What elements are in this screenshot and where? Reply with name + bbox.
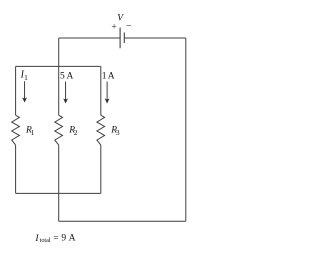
resistor R2 <box>55 115 63 145</box>
wire bottom (outer return) <box>59 220 186 222</box>
resistor R3 <box>97 115 105 145</box>
svg-text:−: − <box>126 21 132 32</box>
current arrow 1A branch <box>105 82 109 104</box>
battery V short plate <box>123 33 125 43</box>
wire top left (battery + side) <box>59 37 120 39</box>
wire inner top rail <box>16 65 101 67</box>
svg-text:Itotal=9A: Itotal=9A <box>34 234 75 244</box>
svg-text:1A: 1A <box>102 71 115 81</box>
svg-text:V: V <box>117 13 124 23</box>
wire middle branch lower <box>58 145 60 221</box>
wire top right (battery - side) <box>124 37 186 39</box>
svg-text:R1: R1 <box>25 126 35 138</box>
wire third branch lower <box>100 145 102 194</box>
wire middle branch upper <box>58 38 60 115</box>
svg-text:I1: I1 <box>20 69 29 82</box>
svg-text:R3: R3 <box>110 126 120 138</box>
wire inner bottom rail <box>16 192 101 194</box>
battery V long plate <box>119 28 121 49</box>
svg-text:+: + <box>111 22 116 32</box>
wire third branch upper <box>100 66 102 115</box>
svg-text:5A: 5A <box>60 71 74 81</box>
current arrow 5A branch <box>64 82 68 104</box>
current arrow I1 <box>23 81 27 102</box>
svg-text:R2: R2 <box>68 126 78 138</box>
wire right vertical <box>185 38 187 221</box>
wire left branch lower <box>15 145 17 194</box>
resistor R1 <box>12 115 20 145</box>
wire left branch upper <box>15 66 17 115</box>
